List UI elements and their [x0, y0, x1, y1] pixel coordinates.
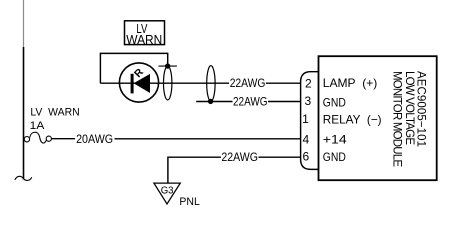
svg-text:LV WARN: LV WARN [30, 107, 79, 119]
svg-text:2: 2 [305, 77, 312, 91]
svg-text:22AWG: 22AWG [221, 150, 258, 164]
wire LED row horizontal [100, 82, 229, 84]
svg-text:22AWG: 22AWG [233, 95, 268, 109]
connector pass-through ellipse 2 [207, 66, 215, 102]
wire pin3 from junction to label [196, 101, 232, 103]
module U1 AEC9005-101 box [319, 56, 437, 180]
fuse LV WARN 1A right terminal circle [46, 136, 51, 141]
label box LV WARN [125, 21, 165, 45]
node junction dot at bottom of second pass-through [208, 99, 213, 104]
LED cathode bar [131, 74, 134, 94]
svg-text:22AWG: 22AWG [230, 76, 266, 90]
svg-text:GND: GND [323, 96, 346, 110]
wire stub through junction dot [159, 65, 177, 67]
wire pin6 from ground corner to label [168, 157, 221, 183]
svg-text:GND: GND [323, 150, 346, 164]
wire 22AWG label to module pin 3 [268, 101, 301, 103]
svg-text:G3: G3 [161, 186, 174, 197]
wire break squiggle at bus bottom [15, 176, 32, 180]
svg-text:4: 4 [302, 132, 309, 146]
svg-text:+14: +14 [323, 132, 347, 146]
LED triangle [134, 74, 150, 93]
LED lamp circle [119, 63, 158, 102]
svg-text:RELAY (−): RELAY (−) [323, 113, 382, 127]
wire main bus black segment [23, 47, 25, 180]
svg-text:LOW VOLTAGE: LOW VOLTAGE [403, 71, 415, 145]
svg-text:3: 3 [304, 94, 311, 108]
wire main bus upper gray segment [23, 0, 25, 47]
svg-text:PNL: PNL [179, 196, 199, 208]
fuse LV WARN 1A wavy element [30, 132, 47, 143]
svg-text:LAMP (+): LAMP (+) [323, 76, 378, 90]
svg-text:MONITOR MODULE: MONITOR MODULE [390, 71, 402, 167]
fuse LV WARN 1A left terminal circle [24, 137, 29, 142]
svg-text:1A: 1A [30, 120, 45, 132]
ground G3 triangle [154, 183, 180, 204]
wire fuse to 20AWG label [52, 138, 76, 140]
wire LED loop (cathode to junction over top) [100, 53, 167, 83]
node junction dot at top of first pass-through [165, 63, 170, 68]
svg-text:AEC9005−101: AEC9005−101 [415, 71, 427, 147]
wire 22AWG label to module pin 6 [259, 156, 301, 158]
wire 20AWG label to module pin 4 [115, 138, 301, 140]
svg-text:1: 1 [302, 112, 309, 126]
svg-text:WARN: WARN [126, 32, 162, 47]
svg-text:20AWG: 20AWG [76, 132, 113, 146]
connector shell [301, 72, 319, 170]
connector pass-through ellipse 1 [164, 66, 172, 100]
svg-text:6: 6 [302, 150, 309, 164]
wire 22AWG label to module pin 2 [266, 82, 301, 84]
